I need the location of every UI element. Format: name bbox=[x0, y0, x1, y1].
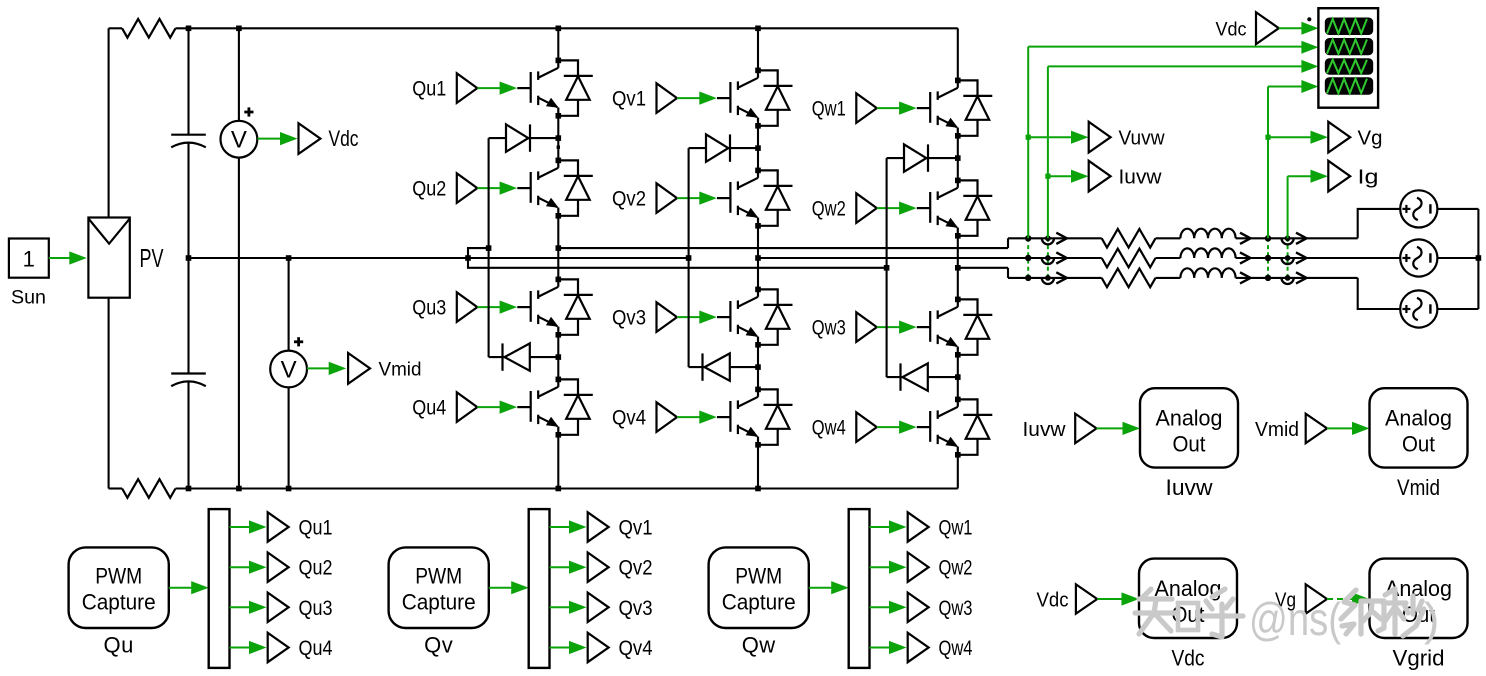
svg-text:Qv2: Qv2 bbox=[619, 557, 653, 580]
label Qv (block name) bbox=[424, 633, 453, 658]
svg-text:PWM: PWM bbox=[95, 564, 142, 589]
port Qw1 (goto tag) bbox=[908, 512, 929, 541]
wire grid neutral rail bbox=[1477, 209, 1479, 309]
svg-text:Qw3: Qw3 bbox=[939, 597, 973, 620]
svg-text:Iuvw: Iuvw bbox=[1023, 419, 1067, 441]
node top rail / leg V bbox=[755, 26, 761, 32]
label Vmid (analog out input) bbox=[1255, 419, 1299, 441]
label Vmid (block name) bbox=[1397, 475, 1440, 500]
label Qw2 bbox=[812, 198, 846, 221]
capacitor C2 bbox=[171, 374, 206, 489]
resistor RV (grid filter) bbox=[1102, 249, 1156, 268]
wire neutral step to W clamp bbox=[468, 258, 887, 268]
wire demux Qu3 out (signal) bbox=[230, 601, 267, 614]
scope (4 channels) bbox=[1318, 8, 1378, 108]
port Vdc input bbox=[1076, 584, 1097, 613]
wire left rail (PV top to top rail) bbox=[109, 28, 123, 217]
port Qw3 (goto tag) bbox=[908, 593, 929, 622]
port Qw2 (gate input) bbox=[856, 193, 877, 223]
port Qu4 (goto tag) bbox=[268, 633, 289, 662]
wire mid rail (neutral) bbox=[189, 257, 689, 259]
wire demux Qu2 out (signal) bbox=[230, 561, 267, 574]
label Qw (block name) bbox=[742, 633, 776, 658]
node leg V output bbox=[755, 255, 761, 261]
ammeter AWg (right) bbox=[1282, 275, 1294, 284]
current arrow W (left) bbox=[1056, 272, 1067, 283]
current arrow U (left) bbox=[1056, 233, 1067, 244]
wire Ig tap vertical bbox=[1288, 170, 1328, 239]
label Qv3 bbox=[619, 597, 653, 620]
wire Iuvw probe feed bbox=[1048, 170, 1089, 183]
wire Vmid to Analog Out bbox=[1327, 422, 1370, 435]
svg-text:Ig: Ig bbox=[1358, 167, 1379, 189]
wire leg V clamp vertical bbox=[688, 148, 690, 367]
port Qv4 (goto tag) bbox=[588, 633, 609, 662]
wire leg W clamp vertical bbox=[886, 158, 888, 377]
wire gate Qv4 (signal) bbox=[677, 411, 717, 424]
demux Qu bbox=[209, 509, 230, 668]
node leg V clamp bottom bbox=[755, 364, 761, 370]
port Qu2 (goto tag) bbox=[268, 553, 289, 582]
svg-text:Qu1: Qu1 bbox=[299, 517, 333, 540]
block Analog Out Vmid bbox=[1370, 388, 1468, 467]
wire bottom rail bbox=[176, 487, 958, 489]
wire gate Qw4 (signal) bbox=[877, 421, 917, 434]
source Vsrc3 (grid phase W) bbox=[1400, 290, 1437, 327]
svg-text:Qu2: Qu2 bbox=[412, 178, 446, 201]
current arrow W (right) bbox=[1296, 272, 1307, 283]
svg-text:Qw4: Qw4 bbox=[939, 637, 973, 660]
wire Vuvw tap (dashed) bbox=[1027, 238, 1029, 278]
wire leg V Qv3-Qv4 bbox=[757, 345, 759, 390]
wire leg V collector feed bbox=[757, 28, 759, 70]
clamp diode Dw6 (to neutral, bottom) bbox=[887, 363, 958, 390]
block PWM Capture Qv bbox=[389, 547, 489, 628]
scope input 4 arrow bbox=[1301, 80, 1318, 93]
transistor Qu1 (IGBT with diode) bbox=[517, 58, 593, 119]
port Qv2 (gate input) bbox=[657, 183, 678, 213]
port Qu4 (gate input) bbox=[457, 392, 478, 422]
solar panel PV bbox=[88, 218, 129, 298]
wire Vuvw probe feed bbox=[1028, 131, 1088, 144]
node voltage tap V (right) bbox=[1265, 255, 1271, 261]
wire PWM Qu to demux (signal) bbox=[169, 581, 209, 594]
node mid rail / Vmid meter bbox=[286, 255, 292, 261]
wire neutral step to U clamp bbox=[468, 248, 489, 258]
wire Vmid meter signal bbox=[307, 362, 346, 375]
wire leg W Qw1-Qw2 bbox=[957, 136, 959, 181]
wire Vdc meter rail lower bbox=[238, 158, 240, 489]
voltmeter Vmid bbox=[270, 337, 307, 387]
wire demux Qw4 out (signal) bbox=[870, 641, 907, 654]
wire Vmid meter rail lower bbox=[288, 387, 290, 488]
svg-text:Vdc: Vdc bbox=[1216, 20, 1247, 41]
svg-text:Qv1: Qv1 bbox=[612, 88, 646, 111]
port Qv1 (gate input) bbox=[657, 83, 678, 113]
wire demux Qv4 out (signal) bbox=[550, 641, 587, 654]
label Qu (block name) bbox=[104, 633, 134, 658]
probe Vdc (goto tag) bbox=[299, 123, 321, 154]
voltmeter Vdc bbox=[221, 107, 258, 157]
wire capacitor rail lower bbox=[187, 258, 189, 374]
wire Vsrc2 to rail bbox=[1437, 257, 1478, 259]
wire W R to L bbox=[1156, 277, 1181, 279]
svg-text:Qv3: Qv3 bbox=[612, 307, 646, 330]
wire Vsrc3 to rail bbox=[1437, 308, 1478, 310]
node top rail / Vdc meter bbox=[236, 26, 242, 32]
wire Iuvw to Analog Out bbox=[1097, 422, 1141, 435]
probe Vdc (from tag at scope) bbox=[1256, 12, 1279, 44]
node C rail / mid rail bbox=[186, 255, 192, 261]
label Vmid bbox=[379, 360, 422, 381]
wire gate Qw1 (signal) bbox=[877, 102, 917, 115]
wire gate Qv3 (signal) bbox=[677, 311, 717, 324]
svg-text:Qv3: Qv3 bbox=[619, 597, 653, 620]
port Qu1 (goto tag) bbox=[268, 512, 289, 541]
svg-text:Qu2: Qu2 bbox=[299, 557, 333, 580]
wire gate Qv1 (signal) bbox=[677, 92, 717, 105]
svg-text:Qu1: Qu1 bbox=[412, 78, 446, 101]
node voltage tap U (left) bbox=[1025, 235, 1031, 241]
source Vsrc1 (grid phase U) bbox=[1400, 190, 1437, 227]
current arrow V (left) bbox=[1056, 252, 1067, 263]
inductor LV (grid filter) bbox=[1180, 248, 1235, 258]
svg-text:Capture: Capture bbox=[722, 590, 796, 615]
source Vsrc2 (grid phase V) bbox=[1400, 239, 1437, 276]
node leg W clamp bottom bbox=[955, 374, 961, 380]
resistor Rdc- (bottom rail) bbox=[122, 479, 175, 498]
label Vdc (scope input) bbox=[1216, 20, 1247, 41]
probe Ig (goto tag) bbox=[1328, 161, 1350, 192]
wire demux Qv2 out (signal) bbox=[550, 561, 587, 574]
port Qu2 (gate input) bbox=[457, 173, 478, 203]
wire leg U collector feed bbox=[557, 28, 559, 60]
node leg U clamp top bbox=[556, 135, 562, 141]
inductor LU (grid filter) bbox=[1180, 229, 1235, 239]
label Qu3 bbox=[299, 597, 333, 620]
label Vdc (analog out input) bbox=[1037, 590, 1069, 612]
wire leg V emitter return bbox=[757, 445, 759, 489]
wire Iuvw tap (dashed) bbox=[1047, 238, 1049, 278]
label Vg (analog out input) bbox=[1275, 590, 1296, 612]
label Qv3 bbox=[612, 307, 646, 330]
svg-text:Qv1: Qv1 bbox=[619, 517, 653, 540]
svg-text:Qw2: Qw2 bbox=[812, 198, 846, 221]
probe Vg (goto tag) bbox=[1328, 122, 1350, 153]
wire V to right taps bbox=[1236, 257, 1401, 259]
wire gate Qu4 (signal) bbox=[477, 401, 517, 414]
inductor LW (grid filter) bbox=[1180, 268, 1235, 278]
node bottom rail / leg U bbox=[556, 486, 562, 492]
clamp diode Du5 (to neutral, top) bbox=[489, 124, 559, 151]
wire gate Qu2 (signal) bbox=[477, 182, 517, 195]
resistor Rdc+ (top rail) bbox=[122, 19, 175, 38]
clamp diode Dv5 (to neutral, top) bbox=[689, 134, 758, 161]
svg-text:Vmid: Vmid bbox=[1397, 475, 1440, 500]
svg-text:Qw2: Qw2 bbox=[939, 557, 973, 580]
svg-text:Qv4: Qv4 bbox=[619, 637, 653, 660]
wire leg W Qw3-Qw4 bbox=[957, 355, 959, 400]
svg-text:Qu: Qu bbox=[104, 633, 134, 658]
transistor Qv2 (IGBT with diode) bbox=[717, 168, 793, 229]
probe Iuvw (goto tag) bbox=[1089, 161, 1111, 192]
node voltage tap W (right) bbox=[1265, 275, 1271, 281]
label Vuvw bbox=[1119, 128, 1166, 150]
svg-text:1: 1 bbox=[23, 247, 35, 272]
svg-text:Vdc: Vdc bbox=[1172, 646, 1205, 671]
node leg W output bbox=[955, 265, 961, 271]
port Qu3 (gate input) bbox=[457, 292, 478, 322]
wire phase W bus bbox=[958, 268, 1102, 278]
label PV bbox=[140, 243, 164, 273]
clamp diode Du6 (to neutral, bottom) bbox=[489, 343, 559, 370]
label Qw4 bbox=[939, 637, 973, 660]
svg-text:Analog: Analog bbox=[1385, 406, 1452, 431]
label Vdc bbox=[329, 126, 359, 151]
ammeter AV (left) bbox=[1042, 255, 1054, 264]
svg-text:Vmid: Vmid bbox=[379, 360, 422, 381]
probe Vuvw (goto tag) bbox=[1089, 122, 1111, 153]
scope input 3 arrow bbox=[1301, 60, 1318, 73]
svg-text:Out: Out bbox=[1173, 432, 1206, 457]
wire Ig tap (dashed) bbox=[1287, 238, 1289, 278]
wire demux Qw3 out (signal) bbox=[870, 601, 907, 614]
svg-text:Qw: Qw bbox=[742, 633, 776, 658]
transistor Qv3 (IGBT with diode) bbox=[717, 287, 793, 348]
node neutral branch bbox=[465, 255, 471, 261]
wire PWM Qv to demux (signal) bbox=[489, 581, 529, 594]
wire leg U Qu2-Qu3 bbox=[557, 216, 559, 280]
block Analog Out Iuvw bbox=[1140, 388, 1238, 467]
svg-text:Qv2: Qv2 bbox=[612, 188, 646, 211]
label Vgrid (block name) bbox=[1393, 646, 1445, 671]
port Vmid input bbox=[1306, 414, 1327, 443]
wire Iuvw tap vertical bbox=[1048, 66, 1304, 238]
label Qv4 bbox=[612, 407, 646, 430]
label Qu1 bbox=[412, 78, 446, 101]
svg-text:Qu4: Qu4 bbox=[412, 397, 446, 420]
wire left rail (PV bottom to bottom rail) bbox=[109, 298, 123, 489]
label Iuvw (block name) bbox=[1166, 475, 1213, 500]
port Qu1 (gate input) bbox=[457, 73, 478, 103]
node Vg branch bbox=[1265, 135, 1270, 140]
label Qw3 bbox=[939, 597, 973, 620]
transistor Qu3 (IGBT with diode) bbox=[517, 277, 593, 338]
source block Sun (constant 1) bbox=[9, 239, 49, 278]
probe Vmid (goto tag) bbox=[348, 353, 370, 384]
label Qv2 bbox=[612, 188, 646, 211]
svg-text:PWM: PWM bbox=[735, 564, 782, 589]
svg-text:Capture: Capture bbox=[82, 590, 156, 615]
node top rail / C rail bbox=[186, 26, 192, 32]
block Analog Out Vdc bbox=[1139, 559, 1237, 638]
ammeter AUg (right) bbox=[1282, 235, 1294, 244]
wire demux Qw1 out (signal) bbox=[870, 520, 907, 533]
wire leg W collector feed bbox=[957, 28, 959, 80]
wire phase W to source bbox=[1358, 278, 1401, 309]
node voltage tap V (left) bbox=[1025, 255, 1031, 261]
node stray dot above scope bbox=[1307, 17, 1311, 21]
svg-text:Vmid: Vmid bbox=[1255, 419, 1299, 441]
wire Vdc to scope bbox=[1279, 27, 1304, 29]
svg-text:@ns(: @ns( bbox=[1249, 593, 1342, 645]
node leg U clamp aux bbox=[557, 146, 560, 149]
label Qw1 bbox=[939, 517, 973, 540]
label Qv1 bbox=[612, 88, 646, 111]
svg-text:Qv: Qv bbox=[424, 633, 453, 658]
svg-text:V: V bbox=[281, 357, 297, 384]
label Qv4 bbox=[619, 637, 653, 660]
port Qv2 (goto tag) bbox=[588, 553, 609, 582]
block PWM Capture Qu bbox=[69, 547, 169, 628]
wire leg U emitter return bbox=[557, 435, 559, 489]
current arrow U (after L) bbox=[1240, 233, 1251, 244]
resistor RU (grid filter) bbox=[1102, 229, 1156, 248]
label Qu4 bbox=[299, 637, 333, 660]
node bottom rail / Vmid meter bbox=[286, 486, 292, 492]
node voltage tap W (left) bbox=[1025, 275, 1031, 281]
svg-text:PV: PV bbox=[140, 243, 164, 273]
svg-text:Vdc: Vdc bbox=[329, 126, 359, 151]
node bottom rail / Vdc meter bbox=[236, 486, 242, 492]
wire gate Qw3 (signal) bbox=[877, 321, 917, 334]
wire Vuvw tap vertical bbox=[1028, 47, 1303, 239]
demux Qw bbox=[849, 509, 870, 668]
resistor RW (grid filter) bbox=[1102, 269, 1156, 288]
label Sun bbox=[11, 288, 46, 309]
transistor Qu4 (IGBT with diode) bbox=[517, 377, 593, 438]
node Vuvw branch bbox=[1026, 135, 1031, 140]
label Qv2 bbox=[619, 557, 653, 580]
node Iuvw branch bbox=[1045, 174, 1050, 179]
wire top rail bbox=[176, 27, 958, 29]
wire Vdc to Analog Out bbox=[1097, 592, 1139, 605]
port Vg input bbox=[1306, 584, 1327, 613]
capacitor C1 bbox=[171, 135, 206, 258]
wire Vdc meter rail upper bbox=[238, 28, 240, 121]
node bottom rail / C rail bbox=[186, 486, 192, 492]
svg-text:Out: Out bbox=[1402, 432, 1435, 457]
port Qu3 (goto tag) bbox=[268, 593, 289, 622]
label Vg bbox=[1358, 128, 1383, 150]
transistor Qw4 (IGBT with diode) bbox=[917, 397, 993, 458]
transistor Qv4 (IGBT with diode) bbox=[717, 387, 793, 448]
current arrow V (right) bbox=[1296, 252, 1307, 263]
svg-text:Sun: Sun bbox=[11, 288, 46, 309]
wire demux Qv1 out (signal) bbox=[550, 520, 587, 533]
wire leg U Qu1-Qu2 bbox=[557, 116, 559, 161]
wire Vg probe feed bbox=[1268, 131, 1328, 144]
transistor Qv1 (IGBT with diode) bbox=[717, 68, 793, 129]
clamp diode Dw5 (to neutral, top) bbox=[887, 144, 958, 171]
node leg V clamp top bbox=[755, 145, 761, 151]
wire leg V Qv2-Qv3 bbox=[757, 226, 759, 290]
node W clamp / neutral bbox=[884, 265, 890, 271]
wire leg W emitter return bbox=[957, 455, 959, 489]
wire demux Qu4 out (signal) bbox=[230, 641, 267, 654]
label Qw4 bbox=[812, 417, 846, 440]
wire gate Qu1 (signal) bbox=[477, 82, 517, 95]
label Qw1 bbox=[812, 98, 846, 121]
svg-text:Capture: Capture bbox=[402, 590, 476, 615]
demux Qv bbox=[529, 509, 550, 668]
transistor Qw1 (IGBT with diode) bbox=[917, 78, 993, 139]
svg-text:Iuvw: Iuvw bbox=[1166, 475, 1213, 500]
node leg U clamp bottom bbox=[556, 354, 562, 360]
svg-text:Qu3: Qu3 bbox=[299, 597, 333, 620]
label Qu2 bbox=[412, 178, 446, 201]
wire Vdc meter signal bbox=[257, 132, 297, 145]
wire Vg tap (dashed) bbox=[1267, 238, 1269, 278]
svg-text:Vg: Vg bbox=[1358, 128, 1383, 150]
svg-text:Analog: Analog bbox=[1156, 406, 1223, 431]
svg-text:Qv4: Qv4 bbox=[612, 407, 646, 430]
label Vdc (block name) bbox=[1172, 646, 1205, 671]
wire U to right taps bbox=[1236, 237, 1358, 239]
ammeter AW (left) bbox=[1042, 275, 1054, 284]
node leg U output bbox=[556, 245, 562, 251]
svg-text:Qw3: Qw3 bbox=[812, 317, 846, 340]
svg-text:Iuvw: Iuvw bbox=[1119, 167, 1163, 189]
wire gate Qu3 (signal) bbox=[477, 301, 517, 314]
wire gate Qv2 (signal) bbox=[677, 192, 717, 205]
wire Vmid meter rail upper bbox=[288, 258, 290, 351]
label Qu1 bbox=[299, 517, 333, 540]
transistor Qw2 (IGBT with diode) bbox=[917, 178, 993, 239]
wire phase V bus bbox=[758, 257, 1102, 259]
port Qw2 (goto tag) bbox=[908, 553, 929, 582]
node grid rail bbox=[1476, 255, 1482, 261]
node bottom rail / leg V bbox=[755, 486, 761, 492]
port Qw1 (gate input) bbox=[856, 93, 877, 123]
label Ig bbox=[1358, 167, 1379, 189]
wire phase U bus bbox=[558, 238, 1101, 248]
svg-text:Qu4: Qu4 bbox=[299, 637, 333, 660]
svg-text:Vuvw: Vuvw bbox=[1119, 128, 1166, 150]
wire leg U Qu3-Qu4 bbox=[557, 335, 559, 380]
wire gate Qw2 (signal) bbox=[877, 202, 917, 215]
wire Vg tap vertical bbox=[1268, 87, 1304, 239]
wire Sun to PV (signal) bbox=[49, 251, 87, 264]
port Qw4 (goto tag) bbox=[908, 633, 929, 662]
wire leg V Qv1-Qv2 bbox=[757, 126, 759, 171]
port Qv3 (goto tag) bbox=[588, 593, 609, 622]
block PWM Capture Qw bbox=[709, 547, 809, 628]
current arrow V (after L) bbox=[1240, 252, 1251, 263]
node top rail / leg U bbox=[556, 26, 562, 32]
label Iuvw (analog out input) bbox=[1023, 419, 1067, 441]
svg-text:Qw1: Qw1 bbox=[939, 517, 973, 540]
scope input 2 arrow bbox=[1301, 41, 1318, 54]
svg-text:Qw1: Qw1 bbox=[812, 98, 846, 121]
ammeter AU (left) bbox=[1042, 235, 1054, 244]
label Qw2 bbox=[939, 557, 973, 580]
current arrow W (after L) bbox=[1240, 272, 1251, 283]
wire W to right taps bbox=[1236, 277, 1358, 279]
node voltage tap U (right) bbox=[1265, 235, 1271, 241]
wire V R to L bbox=[1156, 257, 1181, 259]
wire demux Qu1 out (signal) bbox=[230, 520, 267, 533]
label Qv1 bbox=[619, 517, 653, 540]
current arrow U (right) bbox=[1296, 233, 1307, 244]
wire U R to L bbox=[1156, 237, 1181, 239]
port Qw3 (gate input) bbox=[856, 312, 877, 342]
port Qv3 (gate input) bbox=[657, 302, 678, 332]
svg-text:): ) bbox=[1424, 593, 1439, 645]
block Analog Out Vgrid bbox=[1370, 559, 1468, 638]
wire leg U clamp vertical bbox=[488, 138, 490, 357]
node U clamp / neutral bbox=[486, 245, 492, 251]
